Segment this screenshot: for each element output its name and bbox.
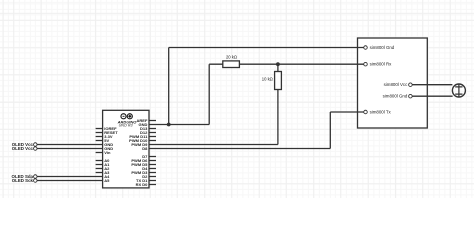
svg-text:A5: A5 <box>104 178 110 183</box>
svg-text:Vin: Vin <box>104 150 111 155</box>
svg-text:20 kΩ: 20 kΩ <box>226 55 237 60</box>
svg-text:OLED Vcc: OLED Vcc <box>12 146 34 151</box>
svg-text:D8: D8 <box>142 146 148 151</box>
svg-text:UNO R3: UNO R3 <box>119 124 134 128</box>
svg-text:sim800l Gnd: sim800l Gnd <box>383 94 408 99</box>
svg-text:10 kΩ: 10 kΩ <box>262 76 273 81</box>
svg-text:sim800l Gnd: sim800l Gnd <box>370 45 395 50</box>
svg-text:sim800l Rx: sim800l Rx <box>370 62 393 67</box>
svg-text:RX D0: RX D0 <box>136 182 149 187</box>
svg-text:sim800l Tx: sim800l Tx <box>370 110 392 115</box>
svg-text:OLED Sck: OLED Sck <box>12 178 34 183</box>
svg-text:sim800l Vcc: sim800l Vcc <box>384 82 408 87</box>
